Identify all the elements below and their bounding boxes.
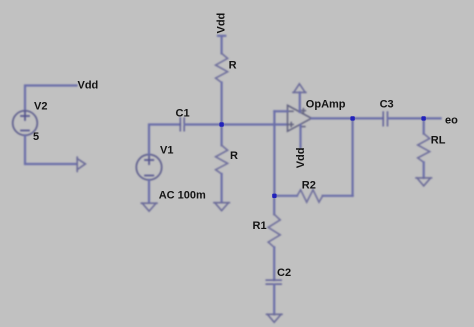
svg-text:Vdd: Vdd bbox=[295, 148, 307, 169]
wire R1 to C2 bbox=[273, 247, 275, 280]
wire R2 right lead bbox=[323, 195, 353, 197]
wire R lower to ground bbox=[221, 174, 223, 202]
wire V2 bottom bbox=[25, 135, 77, 164]
wire feedback vertical bbox=[273, 111, 275, 196]
wire RL bottom bbox=[423, 162, 425, 178]
wire C2 to ground bbox=[273, 285, 275, 315]
svg-text:V2: V2 bbox=[34, 101, 47, 113]
voltage source V2 bbox=[13, 111, 38, 136]
capacitor C3 bbox=[383, 112, 387, 126]
svg-text:R: R bbox=[230, 150, 238, 162]
wire RL top bbox=[423, 118, 425, 133]
ground under RL bbox=[416, 178, 432, 186]
svg-text:R2: R2 bbox=[302, 180, 316, 192]
node at RL tap bbox=[421, 116, 425, 120]
svg-text:5: 5 bbox=[33, 131, 39, 143]
power arrow above opamp bbox=[293, 84, 306, 93]
resistor R1 bbox=[268, 214, 280, 247]
resistor RL bbox=[418, 134, 430, 163]
capacitor C1 bbox=[180, 118, 184, 131]
wire power arrow to opamp bbox=[299, 92, 301, 112]
ground under C2 bbox=[267, 314, 283, 322]
ground right-arrow for V2 bbox=[77, 157, 85, 171]
svg-text:R1: R1 bbox=[253, 220, 267, 232]
wire node to R1 bbox=[273, 196, 275, 215]
capacitor C2 bbox=[266, 280, 281, 284]
wire V2 top to Vdd label bbox=[25, 86, 77, 112]
svg-text:OpAmp: OpAmp bbox=[306, 99, 346, 111]
svg-text:R: R bbox=[229, 59, 237, 71]
wire V1 bottom to ground bbox=[148, 180, 150, 203]
resistor R (upper) bbox=[216, 53, 228, 82]
wire C1 to opamp plus input bbox=[185, 123, 288, 125]
ground under R lower bbox=[214, 203, 230, 211]
svg-text:V1: V1 bbox=[160, 144, 173, 156]
svg-text:eo: eo bbox=[445, 115, 458, 127]
voltage source V1 bbox=[136, 155, 161, 180]
wire R2 left lead bbox=[274, 195, 297, 197]
svg-text:AC 100m: AC 100m bbox=[159, 190, 206, 202]
wire C3 to eo bbox=[388, 117, 441, 119]
svg-text:Vdd: Vdd bbox=[78, 80, 99, 92]
wire V1 top to C1 bbox=[149, 125, 180, 155]
resistor R (lower) bbox=[216, 145, 228, 174]
svg-text:Vdd: Vdd bbox=[216, 13, 228, 34]
wire output down to R2 bbox=[352, 118, 354, 195]
svg-text:C2: C2 bbox=[277, 267, 291, 279]
node feedback junction bbox=[272, 194, 276, 198]
wire R upper to node bbox=[221, 83, 223, 125]
resistor R2 bbox=[297, 190, 323, 202]
node junction C1/R/R bbox=[219, 122, 223, 126]
wire Vdd rail tick bbox=[218, 36, 225, 54]
svg-text:C1: C1 bbox=[176, 107, 190, 119]
ground under V1 bbox=[141, 203, 157, 211]
svg-text:RL: RL bbox=[431, 135, 446, 147]
wire opamp output bbox=[312, 117, 384, 119]
node output at feedback tap bbox=[350, 116, 354, 120]
wire opamp bottom power pin bbox=[299, 125, 301, 148]
wire opamp negative input bbox=[274, 110, 287, 112]
svg-text:C3: C3 bbox=[380, 99, 394, 111]
op-amp U1 OpAmp bbox=[288, 105, 312, 131]
wire node to R lower bbox=[221, 125, 223, 146]
